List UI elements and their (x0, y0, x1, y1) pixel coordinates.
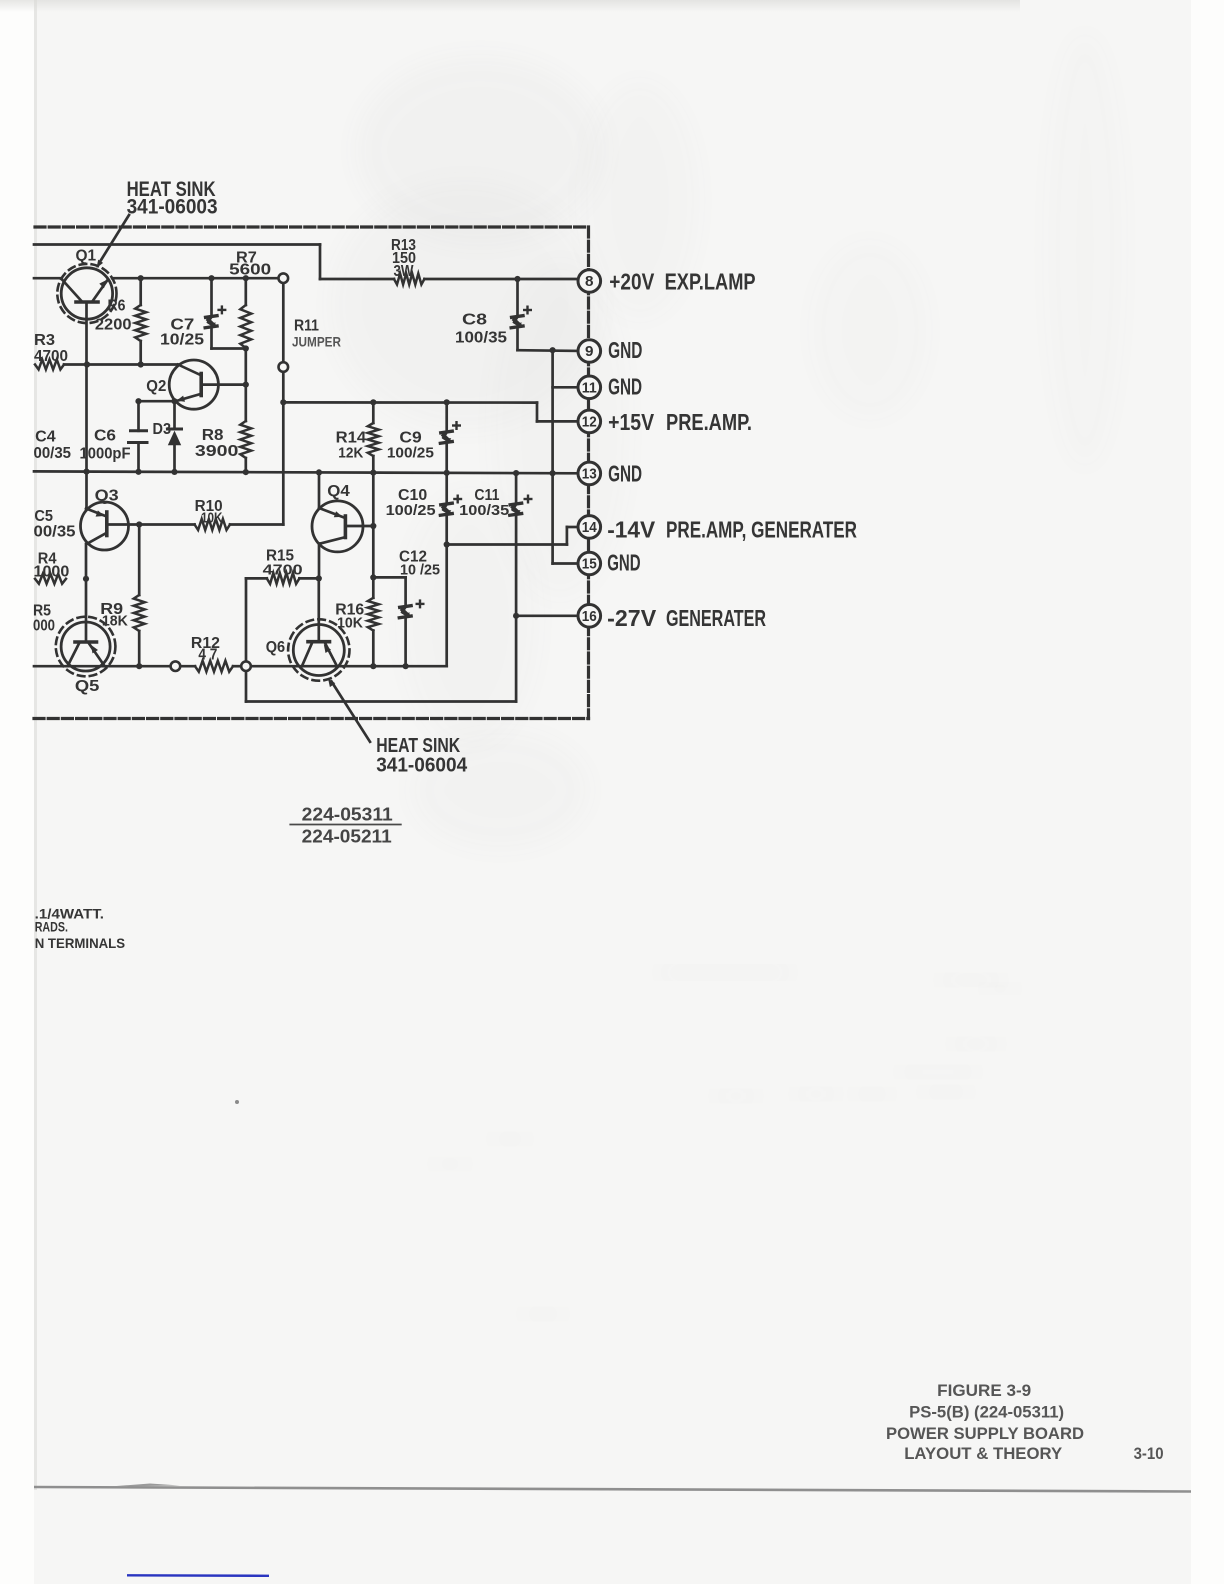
svg-text:5600: 5600 (229, 262, 271, 279)
svg-text:GND: GND (608, 374, 642, 400)
svg-text:100/35: 100/35 (455, 330, 507, 347)
svg-text:Q4: Q4 (327, 483, 350, 500)
svg-text:100/25: 100/25 (387, 445, 434, 462)
svg-text:3-10: 3-10 (1134, 1444, 1164, 1463)
svg-text:JUMPER: JUMPER (292, 334, 341, 350)
svg-text:Q5: Q5 (75, 678, 100, 695)
svg-text:3W: 3W (394, 263, 415, 280)
svg-text:1000: 1000 (34, 564, 70, 581)
svg-text:14: 14 (582, 520, 597, 536)
svg-text:+20V: +20V (609, 268, 655, 294)
svg-text:4700: 4700 (263, 562, 303, 579)
svg-text:FIGURE 3-9: FIGURE 3-9 (937, 1381, 1031, 1400)
svg-text:Q6: Q6 (266, 639, 285, 656)
svg-text:R8: R8 (202, 427, 224, 444)
svg-text:C5: C5 (34, 508, 53, 525)
svg-text:EXP.LAMP: EXP.LAMP (665, 268, 756, 294)
svg-text:RADS.: RADS. (35, 919, 68, 935)
svg-text:R11: R11 (294, 318, 319, 335)
svg-text:11: 11 (582, 381, 597, 397)
svg-text:00/35: 00/35 (34, 445, 72, 462)
svg-text:10/25: 10/25 (160, 332, 204, 349)
svg-text:PS-5(B) (224-05311): PS-5(B) (224-05311) (909, 1403, 1064, 1422)
svg-text:GND: GND (607, 550, 640, 576)
svg-text:Q1: Q1 (76, 248, 97, 265)
svg-text:8: 8 (585, 274, 594, 290)
svg-text:12: 12 (582, 415, 597, 431)
svg-text:4 7: 4 7 (198, 647, 217, 664)
svg-text:PRE.AMP, GENERATER: PRE.AMP, GENERATER (666, 516, 857, 542)
svg-text:R3: R3 (34, 332, 55, 349)
svg-text:2200: 2200 (95, 317, 132, 334)
svg-text:PRE.AMP.: PRE.AMP. (666, 409, 752, 435)
svg-text:000: 000 (33, 618, 55, 635)
svg-text:10K: 10K (201, 510, 223, 527)
svg-text:10 /25: 10 /25 (400, 562, 440, 579)
svg-text:1000pF: 1000pF (80, 446, 131, 463)
svg-text:C8: C8 (462, 312, 487, 329)
svg-text:GND: GND (608, 460, 642, 486)
svg-text:GND: GND (608, 337, 642, 363)
svg-text:LAYOUT & THEORY: LAYOUT & THEORY (904, 1444, 1063, 1463)
svg-text:-27V: -27V (607, 605, 657, 631)
svg-text:224-05211: 224-05211 (302, 827, 392, 847)
svg-text:3900: 3900 (195, 443, 239, 460)
svg-text:18K: 18K (102, 613, 128, 630)
svg-text:C4: C4 (35, 429, 56, 446)
svg-text:15: 15 (582, 557, 597, 573)
svg-text:D3: D3 (153, 421, 172, 438)
svg-text:Q3: Q3 (95, 488, 119, 505)
svg-text:9: 9 (585, 344, 594, 360)
svg-text:-14V: -14V (607, 516, 656, 542)
svg-text:00/35: 00/35 (34, 524, 76, 541)
svg-text:341-06004: 341-06004 (376, 754, 468, 776)
svg-text:100/25: 100/25 (386, 502, 436, 519)
svg-text:+15V: +15V (608, 409, 655, 435)
svg-text:C6: C6 (94, 428, 116, 445)
svg-text:POWER SUPPLY BOARD: POWER SUPPLY BOARD (886, 1424, 1084, 1443)
svg-text:Q2: Q2 (146, 378, 166, 395)
svg-text:16: 16 (582, 609, 597, 625)
svg-text:341-06003: 341-06003 (127, 196, 218, 219)
svg-text:GENERATER: GENERATER (666, 605, 766, 631)
svg-text:224-05311: 224-05311 (302, 804, 393, 824)
svg-text:100/35: 100/35 (459, 502, 509, 519)
svg-text:10K: 10K (337, 615, 363, 632)
svg-text:12K: 12K (338, 445, 363, 462)
svg-text:13: 13 (582, 467, 597, 483)
svg-text:4700: 4700 (34, 348, 68, 365)
svg-text:R6: R6 (108, 298, 126, 315)
svg-text:N TERMINALS: N TERMINALS (35, 935, 125, 951)
